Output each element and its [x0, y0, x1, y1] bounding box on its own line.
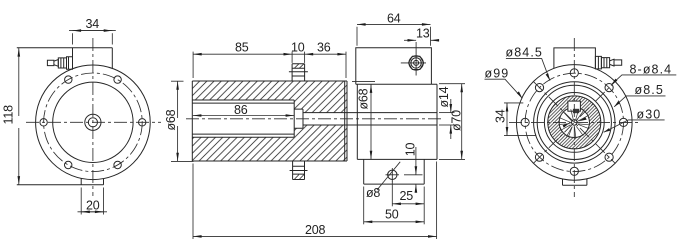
- bore outline: [192, 100, 294, 137]
- flange outer circle: [36, 65, 151, 180]
- dim 10 (hole to bottom): [404, 143, 423, 192]
- bolt hole 180deg: [40, 119, 47, 126]
- bolt hole 300deg: [114, 161, 121, 168]
- label phi84.5: [506, 46, 551, 81]
- phi8 hole in bottom block: [386, 168, 400, 182]
- bolt hole 240deg: [65, 161, 72, 168]
- svg-text:20: 20: [86, 198, 100, 212]
- bolt hole 120deg: [65, 76, 72, 83]
- dim 86 (bore): [193, 103, 294, 117]
- dim 50: [364, 187, 425, 225]
- outer circle phi99: [517, 65, 633, 181]
- svg-text:64: 64: [387, 12, 401, 26]
- label 8-phi8.4: [612, 62, 677, 84]
- svg-text:50: 50: [385, 208, 399, 222]
- svg-text:ø84.5: ø84.5: [506, 46, 543, 60]
- dim 34 (right view): [494, 103, 536, 136]
- dim 34 (top): [69, 17, 116, 44]
- bolt circle (dash-dot): [44, 73, 143, 172]
- bottom tab: [17, 178, 104, 184]
- bottom plug fitting on body: [290, 161, 308, 180]
- grease nipple (right view): [595, 56, 621, 69]
- 8 bolt holes: [619, 118, 627, 126]
- svg-text:36: 36: [317, 40, 331, 54]
- dim 118 (left): [2, 48, 19, 185]
- bottom block (mount): [364, 159, 425, 184]
- dim 25: [392, 181, 424, 224]
- label phi99: [485, 67, 523, 99]
- top valve block: [356, 48, 432, 85]
- bottom tab (right view): [563, 179, 587, 186]
- svg-text:34: 34: [86, 17, 100, 31]
- svg-text:13: 13: [416, 27, 430, 41]
- label phi30: [604, 107, 665, 132]
- top plug fitting on body: [289, 64, 308, 81]
- svg-text:208: 208: [305, 223, 326, 237]
- dim phi14 (shaft): [437, 86, 455, 139]
- keyway slot: [568, 101, 581, 111]
- svg-text:ø30: ø30: [637, 107, 662, 121]
- svg-text:85: 85: [235, 40, 249, 54]
- svg-text:ø68: ø68: [357, 88, 371, 109]
- svg-text:ø8.5: ø8.5: [635, 83, 664, 97]
- label phi8.5: [614, 83, 665, 107]
- dim 208 (overall): [193, 162, 437, 240]
- dim 20 (bottom): [78, 188, 108, 215]
- svg-text:ø14: ø14: [437, 86, 451, 107]
- svg-text:ø8: ø8: [366, 186, 380, 200]
- dim 85 / 10 / 36: [193, 40, 346, 78]
- spline starburst: [560, 109, 590, 138]
- svg-text:ø99: ø99: [485, 67, 510, 81]
- svg-text:10: 10: [404, 143, 418, 157]
- step hole: [294, 109, 303, 128]
- top block (right view): [554, 48, 596, 69]
- shaft hole phi14 lines: [303, 113, 437, 125]
- body outline: [192, 81, 347, 161]
- dim phi70 (end cap): [439, 84, 465, 160]
- phi8 leader: [377, 162, 400, 190]
- center circle: [572, 120, 578, 126]
- vertical centerline: [92, 38, 94, 196]
- centerlines: [509, 121, 641, 123]
- horizontal centerline: [26, 121, 161, 123]
- top block: [17, 48, 113, 69]
- dim phi68 (left of middle view): [164, 81, 194, 161]
- svg-text:ø70: ø70: [450, 110, 464, 131]
- port plug on valve block: [401, 50, 426, 76]
- small leader arrows near hub: [563, 123, 570, 128]
- hub hatched ring: [548, 96, 601, 149]
- bolt circle dash-dot: [525, 73, 623, 171]
- body circle (inner): [53, 82, 133, 162]
- bolt hole 60deg: [114, 76, 121, 83]
- grease nipple (left view): [47, 57, 72, 69]
- right piece (end cap): [357, 84, 437, 159]
- bolt hole 0deg: [139, 119, 146, 126]
- hatched body section: [192, 81, 347, 161]
- middle view centerline: [186, 118, 443, 120]
- svg-text:25: 25: [400, 189, 414, 203]
- svg-text:118: 118: [2, 105, 16, 125]
- dim 64 / 13 (valve block): [357, 12, 439, 51]
- center hub circles: [85, 114, 101, 130]
- svg-text:8-ø8.4: 8-ø8.4: [630, 62, 673, 76]
- bore sleeve lines: [192, 103, 294, 134]
- svg-text:10: 10: [291, 40, 305, 54]
- svg-text:ø68: ø68: [164, 109, 178, 130]
- dim phi68 (right piece): [352, 81, 375, 159]
- svg-text:86: 86: [234, 103, 248, 117]
- flange circles: [534, 82, 615, 163]
- svg-text:34: 34: [494, 109, 508, 123]
